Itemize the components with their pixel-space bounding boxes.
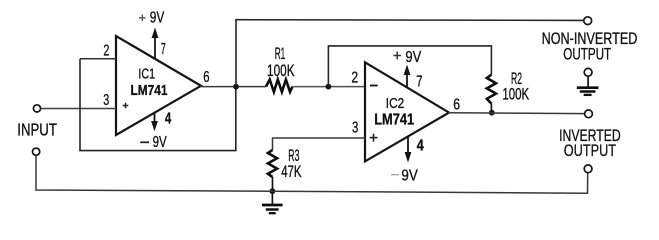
wire: input terminal to IC1 pin 3 <box>41 108 116 110</box>
svg-text:100K: 100K <box>502 85 529 103</box>
wire: R2 bottom stub <box>490 104 492 113</box>
wire: IC2 output to inverted output terminal <box>448 112 585 115</box>
node: R2 / IC2 output junction <box>489 110 495 116</box>
+9V label (IC2) <box>393 49 421 66</box>
wire: R1 to IC2 pin 2 <box>292 86 365 88</box>
NON-INVERTED OUTPUT terminal <box>584 17 592 25</box>
non-inverting input + mark (IC2 pin 3) <box>370 134 378 142</box>
wire: IC2 pin 3 to R3 top corner <box>273 138 366 150</box>
node: R1 / IC2 pin2 junction <box>326 84 332 90</box>
ground (output reference) <box>577 76 599 95</box>
svg-text:4: 4 <box>417 138 424 155</box>
svg-text:100K: 100K <box>267 62 295 80</box>
node: R3 / bottom rail junction <box>270 188 276 194</box>
wire: IC1 pin 2 stub <box>80 58 116 60</box>
op-amp IC2 <box>365 62 449 161</box>
ground (below R3) <box>262 191 283 213</box>
svg-text:4: 4 <box>165 110 172 127</box>
svg-text:LM741: LM741 <box>131 83 168 99</box>
-9V label (IC2) <box>391 168 418 185</box>
bottom-right return terminal <box>584 165 592 173</box>
svg-text:9V: 9V <box>405 49 421 66</box>
op-amp IC1 <box>116 36 201 135</box>
svg-text:6: 6 <box>453 96 460 113</box>
wire: R3 bottom stub <box>272 177 274 191</box>
svg-text:47K: 47K <box>281 163 301 181</box>
wire: top rail to non-inverted output terminal <box>235 19 584 22</box>
node: IC1 output junction <box>233 84 239 90</box>
svg-text:IC1: IC1 <box>138 66 155 82</box>
wire: output node up to top rail <box>235 20 237 87</box>
svg-text:9V: 9V <box>401 168 418 185</box>
svg-text:7: 7 <box>416 74 422 91</box>
wire: IC1 output to R1 <box>200 86 266 88</box>
+9V label (IC1) <box>139 10 165 27</box>
svg-text:LM741: LM741 <box>374 112 414 129</box>
+9V supply arrow (IC1 pin 7) <box>152 28 159 59</box>
NON-INVERTED OUTPUT label <box>542 29 638 63</box>
INPUT terminal (upper) <box>33 105 40 112</box>
svg-text:2: 2 <box>103 42 109 59</box>
INVERTED OUTPUT terminal <box>585 110 593 118</box>
resistor R3 <box>268 150 277 177</box>
resistor R1 <box>266 80 292 92</box>
svg-text:9V: 9V <box>150 10 165 27</box>
svg-text:3: 3 <box>352 120 358 137</box>
svg-text:OUTPUT: OUTPUT <box>563 45 611 64</box>
svg-text:7: 7 <box>161 41 166 58</box>
wire: IC1 feedback loop (pin2 - down - right - up to output node) <box>80 59 236 151</box>
svg-text:IC2: IC2 <box>386 95 404 112</box>
ground reference terminal <box>584 68 592 76</box>
-9V supply arrow (IC1 pin 4) <box>151 113 158 132</box>
svg-text:3: 3 <box>103 92 109 109</box>
svg-text:2: 2 <box>351 70 358 87</box>
INVERTED OUTPUT label <box>559 126 621 160</box>
+9V supply arrow (IC2 pin 7) <box>404 65 411 88</box>
resistor R2 <box>487 75 496 104</box>
inverting input - mark (IC2 pin 2) <box>370 85 378 87</box>
wire: lower input terminal down and along bottom rail to inverted output <box>36 156 588 194</box>
svg-text:9V: 9V <box>153 134 167 151</box>
wire: IC2 feedback loop (junction - up - right - down to R2) <box>328 46 491 87</box>
svg-text:OUTPUT: OUTPUT <box>564 141 616 160</box>
non-inverting input + mark (IC1 pin 3) <box>123 103 129 109</box>
svg-text:R1: R1 <box>275 45 286 63</box>
svg-text:INPUT: INPUT <box>17 119 57 139</box>
-9V supply arrow (IC2 pin 4) <box>405 137 412 163</box>
-9V label (IC1) <box>140 134 167 151</box>
svg-text:6: 6 <box>203 69 209 86</box>
INPUT terminal (lower) <box>33 148 40 155</box>
